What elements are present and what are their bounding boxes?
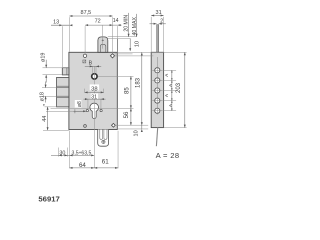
svg-text:64: 64 [79,162,86,169]
svg-text:56917: 56917 [38,194,59,203]
svg-text:44: 44 [42,116,48,122]
svg-text:31: 31 [156,10,162,16]
svg-text:38: 38 [91,86,97,92]
svg-text:72: 72 [95,18,101,24]
svg-text:B: B [89,60,93,66]
svg-text:183: 183 [136,77,142,88]
svg-text:20 MIN: 20 MIN [124,15,130,32]
svg-text:10: 10 [134,41,140,47]
svg-text:2: 2 [160,18,163,24]
svg-text:87,5: 87,5 [81,10,92,16]
svg-text:31: 31 [91,94,97,100]
svg-text:A = 28: A = 28 [156,151,180,160]
svg-text:10: 10 [134,130,140,136]
svg-text:40 MAX: 40 MAX [132,17,138,36]
svg-text:56: 56 [124,111,130,118]
svg-text:3,5÷63,5: 3,5÷63,5 [72,150,92,156]
svg-text:A: A [164,93,169,97]
svg-text:ø19: ø19 [41,53,47,62]
svg-text:A: A [164,73,169,77]
svg-text:30: 30 [59,150,65,156]
svg-text:85: 85 [124,87,130,94]
svg-text:203: 203 [176,82,182,93]
svg-text:ø8: ø8 [77,101,83,107]
svg-text:61: 61 [102,159,109,166]
svg-text:14: 14 [113,18,119,24]
svg-text:13: 13 [53,19,59,25]
svg-text:ø18: ø18 [39,92,45,101]
